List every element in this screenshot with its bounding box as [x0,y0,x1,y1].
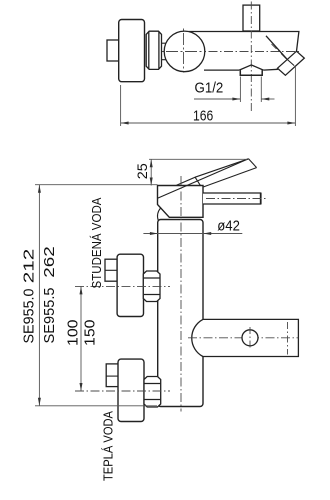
mixer head [158,186,204,218]
overall height dimension line [38,185,40,406]
wall pipe (side view) [107,40,119,61]
shower outlet bump [239,65,263,70]
svg-text:166: 166 [193,107,213,124]
column vertical centerline [180,176,182,412]
svg-text:212: 212 [21,249,38,284]
overall height extension bottom [35,405,157,407]
166 extension lines [121,67,296,127]
dim ø42 arrows [150,232,211,235]
circle vertical center mark [249,327,251,349]
hot wall pipe [106,364,118,387]
hot flange [118,359,144,421]
svg-text:SE955.0: SE955.0 [21,289,38,344]
dim 25 arrows [150,159,153,185]
cold wall pipe [105,259,117,281]
inlet spacing arrows [80,286,83,391]
G1/2 arrows [232,98,269,101]
svg-text:TEPLÁ VODA: TEPLÁ VODA [100,411,115,481]
arm outlet circle [242,330,258,346]
svg-text:G1/2: G1/2 [195,80,224,97]
shower outlet collar [240,70,262,75]
angled outlet 45deg centerline [272,44,289,61]
body horizontal axis centerline [162,51,299,53]
svg-text:150: 150 [81,320,98,347]
rod centerline [206,198,266,200]
angled hose connector (45deg) [278,51,305,75]
hose connection vertical mark [287,322,289,355]
lever top edge [195,159,248,177]
outlet stub vertical centerline [250,2,252,114]
body internal diagonal edge [266,36,287,59]
body (side view) [189,32,299,71]
overall height extension top [35,184,158,186]
svg-text:262: 262 [41,246,58,278]
lever upper edge [158,159,249,199]
cartridge stub on top [243,5,260,31]
connector inner edge [287,59,294,66]
arm axis centerline [188,337,298,339]
lever grip rod [203,193,261,204]
lever lower edge [203,168,256,187]
svg-text:SE955.5: SE955.5 [41,288,58,344]
dim 25 extension top [149,158,247,160]
166 dimension line [121,122,296,124]
cold wall pipe mid line [105,269,117,271]
lever wedge base [177,177,201,185]
overall height arrows [38,185,41,406]
cold nut [143,271,160,302]
G1/2 extension lines [240,77,261,103]
hot inlet axis [75,390,170,392]
lever end cap [249,159,257,168]
hot nut [144,377,161,408]
svg-text:ø42: ø42 [217,218,240,235]
rod end cap [260,193,262,204]
166 arrows [121,122,296,125]
G1/2 dimension line [194,98,275,100]
shower arm [192,319,299,356]
dim ø42 line [143,233,242,235]
hex nut (side view) [146,31,161,69]
hot wall pipe mid line [106,375,118,377]
nut-to-ball collar lines [162,42,167,44]
ball joint [164,31,205,72]
cold flange [117,254,143,316]
svg-text:25: 25 [134,163,150,179]
ball center marks [166,33,203,70]
dim 25 line [150,159,152,185]
inlet spacing dimension line [80,286,82,391]
svg-text:STUDENÁ VODA: STUDENÁ VODA [89,197,104,288]
svg-text:100: 100 [65,320,82,347]
cold inlet axis [75,285,170,287]
ball vertical centerline [183,29,185,75]
wall flange (side view) [119,20,145,82]
body column [158,220,203,407]
head lower-left arc [157,208,161,221]
